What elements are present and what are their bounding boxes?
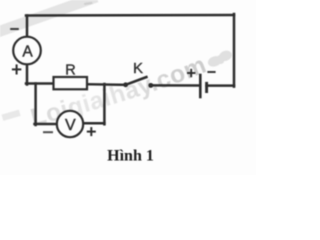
switch K lever bbox=[126, 77, 148, 85]
switch K left contact bbox=[123, 82, 128, 87]
resistor R bbox=[54, 77, 88, 89]
voltmeter plus label bbox=[87, 127, 96, 136]
watermark dot left bbox=[2, 110, 21, 121]
svg-text:V: V bbox=[65, 117, 76, 134]
voltmeter V circle bbox=[57, 111, 83, 137]
ammeter plus terminal label bbox=[12, 64, 21, 74]
wire voltmeter left vertical bbox=[34, 84, 37, 126]
watermark band top-left bbox=[0, 0, 98, 49]
watermark text Loigiaihay.com bbox=[33, 64, 224, 126]
wire voltmeter bottom left stub bbox=[35, 123, 58, 126]
battery negative short plate bbox=[205, 82, 208, 93]
svg-text:Loigiaihay.com: Loigiaihay.com bbox=[28, 51, 210, 131]
switch K right contact bbox=[148, 83, 153, 88]
wire battery to right corner bbox=[207, 84, 235, 87]
svg-text:Hình 1: Hình 1 bbox=[107, 148, 154, 165]
wire main mid left bbox=[26, 82, 54, 85]
wire right vertical bbox=[233, 14, 236, 87]
wire voltmeter right vertical bbox=[103, 84, 106, 124]
wire left vertical upper bbox=[26, 16, 29, 38]
battery minus label bbox=[207, 71, 215, 73]
battery positive long plate bbox=[199, 74, 202, 99]
watermark fragment upper row right bbox=[206, 49, 234, 68]
ammeter A circle bbox=[13, 37, 41, 65]
svg-text:A: A bbox=[22, 43, 33, 60]
svg-text:K: K bbox=[133, 60, 143, 77]
wire switch to battery bbox=[151, 84, 200, 87]
watermark smudge top dash bbox=[84, 2, 93, 5]
voltmeter minus label bbox=[43, 131, 53, 133]
battery plus label bbox=[187, 69, 195, 77]
wire voltmeter bottom right stub bbox=[83, 122, 105, 125]
wire left vertical lower bbox=[26, 65, 29, 85]
wire top bbox=[26, 14, 234, 17]
svg-text:R: R bbox=[65, 63, 75, 79]
wire resistor to switch bbox=[86, 83, 126, 86]
ammeter minus terminal label bbox=[10, 28, 19, 30]
